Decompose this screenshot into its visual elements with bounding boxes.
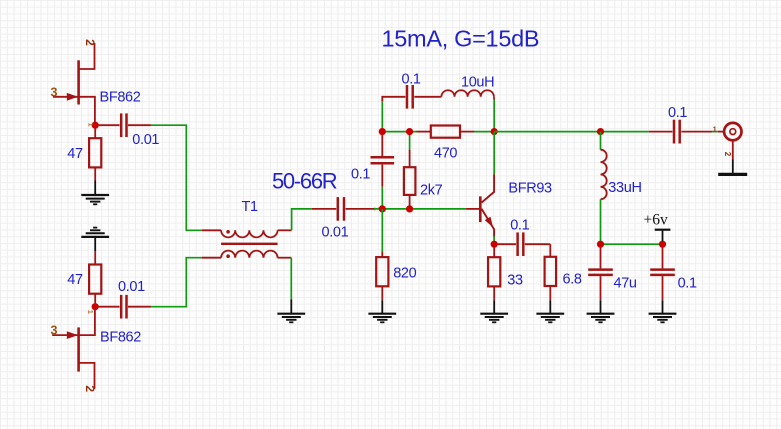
ground GND7 (47u) xyxy=(587,300,615,322)
svg-text:47u: 47u xyxy=(614,276,637,292)
node junction dot x600 y244 xyxy=(597,241,604,248)
ground GND6 (6.8) xyxy=(536,300,564,322)
svg-text:6.8: 6.8 xyxy=(563,272,582,288)
capacitor C6 0.1 (emitter) xyxy=(498,232,551,256)
wire output stub xyxy=(712,131,717,133)
svg-text:2k7: 2k7 xyxy=(420,183,443,199)
svg-text:BF862: BF862 xyxy=(100,90,141,106)
svg-text:0.1: 0.1 xyxy=(678,276,697,292)
ground GND2 (inverted, above R2) xyxy=(81,228,109,252)
inductor L1 10uH xyxy=(441,90,494,99)
svg-text:1: 1 xyxy=(713,126,717,133)
inductor L2 33uH xyxy=(601,150,607,200)
wire output row xyxy=(494,131,649,133)
node junction dot emitter xyxy=(491,241,498,248)
capacitor C1 0.01 (top left) xyxy=(99,113,151,137)
svg-text:2: 2 xyxy=(83,385,97,392)
transformer phase dot secondary xyxy=(226,254,230,258)
svg-text:2: 2 xyxy=(723,152,732,157)
capacitor C5 0.1 (top) xyxy=(382,85,441,109)
wire top feedback verticals xyxy=(381,100,383,132)
node junction dot Q2 source xyxy=(92,303,99,310)
svg-text:10uH: 10uH xyxy=(461,74,494,90)
node junction dot row209 right xyxy=(406,205,413,212)
svg-text:15mA, G=15dB: 15mA, G=15dB xyxy=(382,26,540,52)
resistor R3 820 xyxy=(376,251,388,300)
svg-text:0.1: 0.1 xyxy=(402,72,421,88)
svg-text:33: 33 xyxy=(507,272,523,288)
wire net bottom-left to transformer secondary xyxy=(151,258,203,307)
capacitor C2 0.01 (bottom left) xyxy=(99,295,151,319)
connector X1 output xyxy=(718,123,742,160)
svg-text:0.01: 0.01 xyxy=(118,279,145,295)
wire collector net xyxy=(493,132,495,175)
wire emitter stub xyxy=(493,236,495,241)
svg-text:3: 3 xyxy=(51,323,58,337)
ground GND3 (transformer) xyxy=(277,299,305,322)
transformer T1 xyxy=(202,230,292,257)
resistor R6 33 xyxy=(488,248,500,301)
connector ground bar xyxy=(718,160,747,175)
wire 33uH top stub xyxy=(600,132,602,150)
svg-text:BF862: BF862 xyxy=(100,330,141,346)
svg-text:33uH: 33uH xyxy=(608,180,641,196)
svg-text:BFR93: BFR93 xyxy=(508,180,552,196)
svg-text:47: 47 xyxy=(67,146,83,162)
power symbol +6v xyxy=(655,230,671,241)
capacitor C4 0.1 (vertical at x382) xyxy=(371,134,395,187)
ground GND8 (0.1 supply) xyxy=(649,300,677,322)
node junction dot row131 x600 xyxy=(597,128,604,135)
svg-text:820: 820 xyxy=(393,265,416,281)
resistor R7 6.8 xyxy=(545,244,557,300)
capacitor C3 0.01 (mid) xyxy=(312,197,374,221)
capacitor C7 47u xyxy=(588,248,613,301)
node junction dot Q1 source xyxy=(92,122,99,129)
svg-text:0.01: 0.01 xyxy=(132,132,159,148)
svg-text:2: 2 xyxy=(83,39,97,46)
svg-text:50-66R: 50-66R xyxy=(272,169,337,194)
svg-text:1: 1 xyxy=(86,310,95,314)
svg-text:0.1: 0.1 xyxy=(351,166,370,182)
ground GND4 (820) xyxy=(368,300,396,322)
svg-text:0.1: 0.1 xyxy=(668,105,687,121)
svg-text:47: 47 xyxy=(67,272,83,288)
svg-text:470: 470 xyxy=(434,146,457,162)
svg-text:3: 3 xyxy=(51,86,58,100)
transistor Q1 BF862 top JFET xyxy=(53,43,95,122)
node junction dot row131 x409 xyxy=(406,128,413,135)
wire decoupling row xyxy=(601,243,663,245)
node junction dot row209 left xyxy=(379,205,386,212)
transformer phase dot primary xyxy=(226,230,230,234)
wire base row nets xyxy=(374,208,466,210)
node junction dot row131 x382 xyxy=(379,128,386,135)
capacitor C9 0.1 (output) xyxy=(649,120,713,144)
svg-text:0.1: 0.1 xyxy=(510,217,529,233)
transistor Q2 BF862 bottom JFET xyxy=(52,310,95,389)
svg-text:0.01: 0.01 xyxy=(322,224,349,240)
node junction dot x662 y244 xyxy=(659,241,666,248)
wire transformer primary right up to row xyxy=(292,209,312,230)
wire 820 net xyxy=(381,209,383,251)
wire below C4 xyxy=(381,187,383,206)
svg-text:T1: T1 xyxy=(242,199,259,215)
wire 2k7 top xyxy=(409,134,411,151)
resistor R5 470 xyxy=(417,126,475,138)
wire net top-left to transformer primary xyxy=(151,125,203,230)
svg-text:+6v: +6v xyxy=(644,212,668,229)
transistor Q3 BFR93 xyxy=(466,175,494,237)
resistor R2 47 (bottom) xyxy=(89,251,101,303)
wire 33uH bottom stub xyxy=(600,199,602,244)
resistor R1 47 (top) xyxy=(89,129,101,181)
capacitor C8 0.1 (supply) xyxy=(650,248,675,301)
ground GND1 (below R1) xyxy=(81,181,109,205)
resistor R4 2k7 xyxy=(404,150,416,206)
node junction dot row131 x494 (collector) xyxy=(491,128,498,135)
wire feedback row 131 xyxy=(382,131,417,133)
ground GND5 (33) xyxy=(480,300,508,322)
wire transformer secondary right down xyxy=(290,258,292,300)
svg-text:1: 1 xyxy=(87,123,96,127)
